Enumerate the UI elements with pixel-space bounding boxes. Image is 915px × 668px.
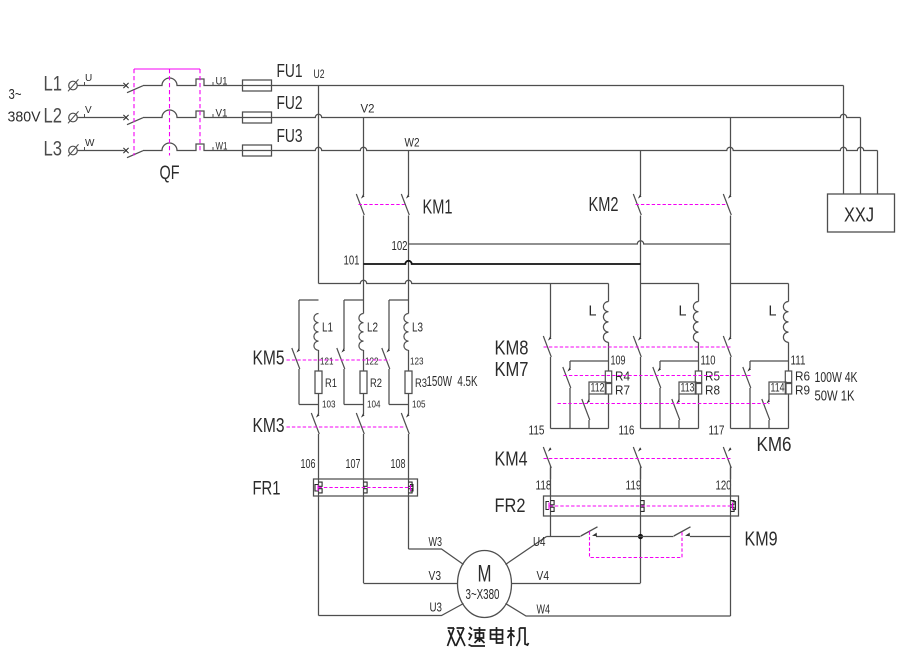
svg-text:L3: L3 (44, 138, 63, 161)
svg-text:50W 1K: 50W 1K (815, 389, 855, 405)
svg-text:U: U (85, 73, 92, 84)
svg-text:KM7: KM7 (495, 359, 529, 381)
svg-text:KM1: KM1 (423, 197, 453, 219)
svg-text:R7: R7 (615, 383, 630, 398)
svg-text:QF: QF (160, 163, 180, 184)
svg-text:R4: R4 (615, 369, 630, 384)
svg-text:R1: R1 (325, 378, 337, 390)
svg-text:117: 117 (709, 424, 725, 438)
svg-text:112: 112 (591, 383, 605, 395)
svg-text:3~X380: 3~X380 (466, 586, 500, 603)
svg-text:XXJ: XXJ (844, 205, 874, 227)
svg-text:121: 121 (320, 356, 334, 368)
svg-text:L3: L3 (412, 320, 423, 335)
svg-text:FR1: FR1 (253, 479, 281, 500)
svg-text:W2: W2 (405, 138, 420, 150)
svg-text:KM2: KM2 (589, 194, 619, 216)
svg-text:L: L (679, 304, 687, 320)
svg-text:FU3: FU3 (277, 126, 303, 146)
svg-text:KM8: KM8 (495, 338, 529, 360)
svg-text:U4: U4 (533, 534, 546, 549)
svg-text:R9: R9 (795, 383, 810, 398)
svg-text:L1: L1 (322, 320, 333, 335)
svg-text:102: 102 (392, 239, 408, 253)
svg-text:FU1: FU1 (277, 61, 303, 81)
svg-text:105: 105 (412, 399, 426, 411)
svg-text:W3: W3 (429, 534, 443, 549)
svg-text:115: 115 (529, 424, 545, 438)
svg-text:114: 114 (771, 383, 785, 395)
svg-text:U2: U2 (314, 69, 325, 81)
svg-text:W1: W1 (216, 141, 228, 153)
svg-text:KM6: KM6 (757, 434, 792, 456)
svg-text:150W 4.5K: 150W 4.5K (427, 373, 478, 390)
svg-text:V: V (85, 105, 92, 116)
svg-text:111: 111 (791, 354, 806, 368)
svg-text:L1: L1 (44, 73, 63, 96)
svg-text:R2: R2 (370, 378, 382, 390)
svg-text:L: L (769, 304, 777, 320)
svg-text:V2: V2 (361, 104, 375, 116)
svg-text:R8: R8 (705, 383, 720, 398)
svg-text:123: 123 (410, 356, 424, 368)
svg-text:110: 110 (701, 354, 716, 368)
svg-text:KM9: KM9 (745, 529, 778, 551)
svg-text:107: 107 (346, 457, 361, 471)
svg-text:119: 119 (626, 479, 642, 493)
svg-text:104: 104 (367, 399, 381, 411)
svg-text:380V: 380V (8, 109, 41, 126)
svg-text:120: 120 (716, 479, 732, 493)
svg-text:L: L (589, 304, 597, 320)
svg-text:KM4: KM4 (495, 449, 528, 471)
svg-text:109: 109 (611, 354, 626, 368)
svg-text:L2: L2 (367, 320, 378, 335)
svg-text:106: 106 (301, 457, 316, 471)
svg-text:KM5: KM5 (253, 348, 285, 370)
svg-text:116: 116 (619, 424, 635, 438)
svg-text:FR2: FR2 (495, 496, 526, 517)
svg-text:W: W (85, 138, 95, 149)
svg-text:R6: R6 (795, 369, 810, 384)
svg-text:R3: R3 (415, 378, 427, 390)
svg-text:U3: U3 (430, 600, 443, 615)
svg-text:W4: W4 (537, 602, 551, 617)
svg-text:V3: V3 (429, 568, 442, 583)
svg-text:108: 108 (391, 457, 406, 471)
svg-text:103: 103 (322, 399, 336, 411)
svg-text:3~: 3~ (9, 86, 22, 103)
svg-text:FU2: FU2 (277, 93, 303, 113)
svg-text:V4: V4 (537, 568, 550, 583)
svg-text:U1: U1 (216, 76, 228, 88)
svg-text:100W 4K: 100W 4K (815, 370, 858, 386)
svg-text:122: 122 (365, 356, 379, 368)
svg-text:113: 113 (681, 383, 695, 395)
svg-text:L2: L2 (44, 105, 63, 128)
svg-text:101: 101 (344, 254, 360, 268)
svg-text:M: M (478, 561, 492, 588)
svg-text:118: 118 (536, 479, 552, 493)
svg-text:KM3: KM3 (253, 415, 285, 437)
svg-text:V1: V1 (216, 108, 228, 120)
